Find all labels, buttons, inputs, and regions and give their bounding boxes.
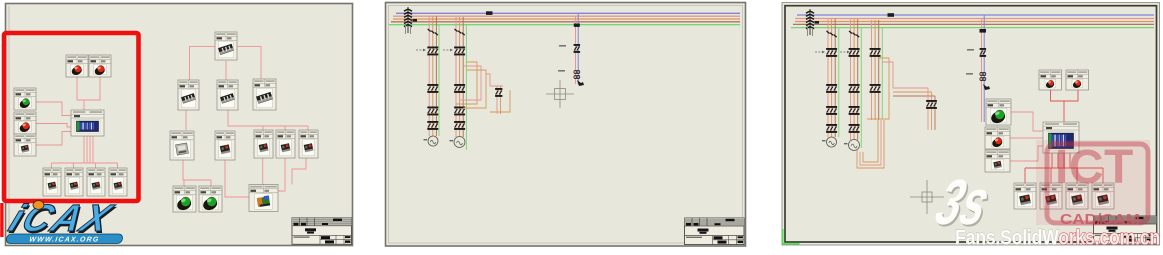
svg-text:Fans.SolidWorks.com.cn: Fans.SolidWorks.com.cn xyxy=(955,227,1160,250)
svg-text:WWW.ICAX.ORG: WWW.ICAX.ORG xyxy=(29,236,100,243)
svg-text:ICT: ICT xyxy=(1055,141,1134,194)
svg-text:iCAX: iCAX xyxy=(3,197,119,239)
